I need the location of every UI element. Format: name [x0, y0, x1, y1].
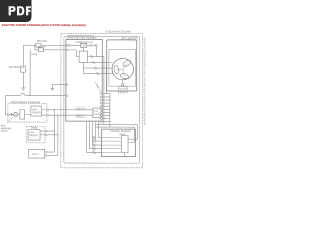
svg-text:DRIVER: DRIVER [93, 114, 101, 116]
svg-text:LIGHT: LIGHT [1, 131, 8, 133]
svg-text:PCM: PCM [31, 127, 37, 130]
svg-text:RELAY: RELAY [120, 90, 127, 93]
svg-text:DRIVER: DRIVER [32, 112, 41, 114]
svg-text:CAN_H: CAN_H [76, 107, 84, 110]
svg-text:POWER RELAY: POWER RELAY [75, 41, 93, 44]
svg-text:EPS CONTROL MODULE: EPS CONTROL MODULE [68, 37, 97, 40]
svg-text:IG 15A: IG 15A [38, 46, 46, 49]
svg-text:CAN_L: CAN_L [76, 115, 84, 118]
svg-text:BATTERY: BATTERY [9, 66, 21, 69]
svg-text:MAIN: MAIN [119, 133, 125, 136]
svg-text:INSTRUMENT CLUSTER: INSTRUMENT CLUSTER [10, 100, 40, 104]
svg-text:(15A): (15A) [31, 53, 37, 56]
svg-text:CAN: CAN [32, 108, 37, 111]
svg-text:DLC-2: DLC-2 [32, 153, 40, 156]
svg-text:EPS 80A: EPS 80A [37, 40, 47, 43]
svg-text:TORQUE SENSOR: TORQUE SENSOR [110, 130, 131, 133]
svg-text:DRIVER: DRIVER [29, 135, 38, 137]
svg-text:WWW.WIRING-DIAGRAMS-CAR-MANUAL: WWW.WIRING-DIAGRAMS-CAR-MANUALS-PDF-DOWN… [143, 37, 146, 125]
svg-text:CAN: CAN [29, 131, 34, 134]
svg-text:EPS MOTOR: EPS MOTOR [121, 36, 137, 40]
svg-text:STEERING COLUMN: STEERING COLUMN [105, 30, 130, 34]
svg-text:CAN: CAN [94, 110, 99, 113]
svg-text:WARNING: WARNING [1, 127, 12, 130]
